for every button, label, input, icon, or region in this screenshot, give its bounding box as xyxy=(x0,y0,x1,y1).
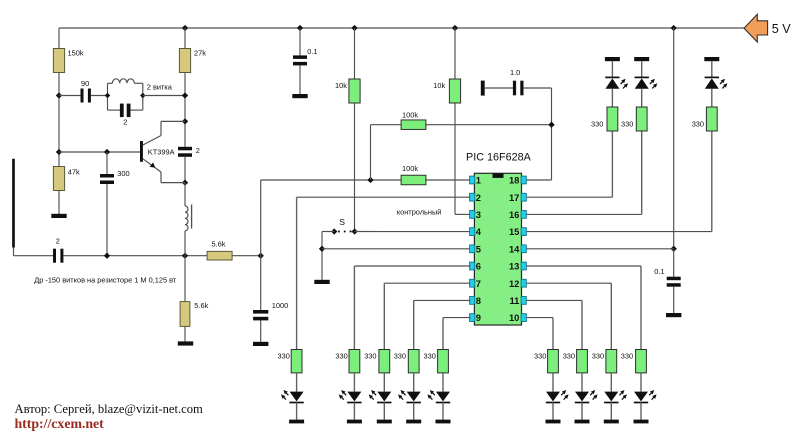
wire to LED xyxy=(442,373,444,392)
pin 7 number xyxy=(476,278,481,289)
svg-text:27k: 27k xyxy=(194,48,206,57)
wire Vdd branch xyxy=(673,28,675,249)
pin 10 pad xyxy=(521,314,526,322)
resistor 5.6k vertical xyxy=(180,301,208,326)
node (185,255.7) xyxy=(182,253,188,259)
resistor 330 top 2 xyxy=(621,107,647,131)
wire 10k-2 branch xyxy=(455,28,470,214)
node collector (185,121.4) xyxy=(182,118,188,124)
pin 18 pad xyxy=(521,176,526,184)
wire ground to LED xyxy=(611,61,613,77)
svg-text:11: 11 xyxy=(509,295,519,306)
node (185,95.5) xyxy=(182,92,188,98)
svg-text:330: 330 xyxy=(424,352,436,361)
wire to LED xyxy=(383,373,385,392)
node rail junction x300 xyxy=(297,25,303,31)
svg-text:0.1: 0.1 xyxy=(307,47,317,56)
pin 18 number xyxy=(509,175,519,186)
capacitor 0.1 decoupling right xyxy=(654,249,680,313)
IC U1 PIC 16F628A body xyxy=(466,151,532,325)
wire to LED xyxy=(552,373,554,392)
node (370.5,180) xyxy=(367,177,373,183)
pin 2 number xyxy=(476,192,481,203)
capacitor 1.0 coupling with plate xyxy=(481,68,552,96)
wire 1000 branch xyxy=(260,256,262,342)
svg-text:12: 12 xyxy=(509,278,519,289)
wire switch to ground xyxy=(322,232,334,280)
wire to LED xyxy=(296,373,298,392)
resistor 330 bottom-right 1 xyxy=(534,350,558,373)
svg-text:47k: 47k xyxy=(68,168,80,177)
wire pin5 xyxy=(322,248,470,250)
svg-text:2 витка: 2 витка xyxy=(147,82,173,91)
LED bottom-left 2 xyxy=(339,390,362,403)
LED bottom-left 1 xyxy=(281,390,304,403)
inductor Dr emitter choke xyxy=(185,183,192,256)
resistor 330 bottom-left 3 xyxy=(364,350,389,373)
wire pin18 branch xyxy=(527,88,552,180)
pin 16 pad xyxy=(521,211,526,219)
pin 12 number xyxy=(509,278,519,289)
svg-text:1: 1 xyxy=(476,175,481,186)
wire to ground xyxy=(581,403,583,420)
svg-text:330: 330 xyxy=(278,352,290,361)
ground under 1000 xyxy=(253,342,268,346)
svg-text:330: 330 xyxy=(592,352,604,361)
wire to LED xyxy=(610,373,612,392)
svg-text:13: 13 xyxy=(509,261,519,272)
svg-text:7: 7 xyxy=(476,278,481,289)
resistor 5.6k horizontal xyxy=(207,239,261,260)
svg-text:15: 15 xyxy=(509,226,519,237)
pin 11 pad xyxy=(521,297,526,305)
wire ground to LED xyxy=(641,61,643,77)
wire to LED xyxy=(353,373,355,392)
LED bottom-right 4 xyxy=(634,390,657,403)
node (322,248.8) xyxy=(319,246,325,252)
pin 7 pad xyxy=(470,279,475,287)
ground LED top 1 xyxy=(605,57,620,61)
pin 15 number xyxy=(509,226,519,237)
ground LED bottom-left 2 xyxy=(347,420,362,424)
wire to LED xyxy=(581,373,583,392)
wire pin13 to LED chain xyxy=(527,266,641,350)
wire pin1 feedback to oscillator xyxy=(261,180,471,256)
pin 6 pad xyxy=(470,262,475,270)
label Dr note xyxy=(34,276,177,285)
node tank right (142.8,95.5) xyxy=(140,93,145,98)
ground LED bottom-left 1 xyxy=(289,420,304,424)
pin 4 pad xyxy=(470,228,475,236)
svg-text:100k: 100k xyxy=(402,111,418,120)
svg-text:KT399A: KT399A xyxy=(148,148,175,157)
resistor 47k xyxy=(53,167,80,191)
wire LED to resistor xyxy=(611,89,613,107)
wire to ground xyxy=(610,403,612,420)
wire pin11 to LED chain xyxy=(527,300,582,349)
pin 1 pad xyxy=(470,176,475,184)
resistor 100k lower xyxy=(401,164,426,185)
wire 27k branch xyxy=(184,28,186,147)
wire to ground xyxy=(296,403,298,420)
capacitor 2 antenna coupling xyxy=(53,237,63,263)
svg-text:Др -150 витков на резисторе 1: Др -150 витков на резисторе 1 М 0,125 вт xyxy=(34,276,177,285)
pin 8 number xyxy=(476,295,481,306)
node bias junction (59,95.5) xyxy=(56,92,62,98)
resistor 330 top 1 xyxy=(591,107,618,131)
wire pin6 to LED chain xyxy=(354,266,470,350)
pin 12 pad xyxy=(521,279,526,287)
wire cap2 to emitter node xyxy=(184,157,186,183)
svg-text:5.6k: 5.6k xyxy=(194,301,208,310)
pin 9 number xyxy=(476,312,481,323)
wire cap90 link xyxy=(59,95,108,97)
wire tank to collector node xyxy=(143,95,185,97)
pin 8 pad xyxy=(470,297,475,305)
pin 3 pad xyxy=(470,211,475,219)
pin 1 number xyxy=(476,175,481,186)
node rail junction x455 xyxy=(452,25,458,31)
wire LED to resistor xyxy=(711,89,713,107)
svg-text:330: 330 xyxy=(692,120,704,129)
pin 10 number xyxy=(509,312,519,323)
svg-text:контрольный: контрольный xyxy=(397,208,442,217)
ground LED bottom-left 3 xyxy=(377,420,392,424)
pin 5 number xyxy=(476,243,481,254)
LED bottom-left 3 xyxy=(369,390,392,403)
resistor 330 bottom-left 4 xyxy=(394,350,419,373)
pin 13 pad xyxy=(521,262,526,270)
ground LED top 3 xyxy=(704,57,719,61)
wire to ground xyxy=(552,403,554,420)
svg-text:5.6k: 5.6k xyxy=(212,239,226,248)
ground under 47k xyxy=(51,214,66,218)
wire to LED xyxy=(640,373,642,392)
node base-cap300 junction (107,152) xyxy=(104,149,110,155)
svg-text:6: 6 xyxy=(476,261,481,272)
svg-text:90: 90 xyxy=(81,79,89,88)
svg-text:4: 4 xyxy=(476,226,482,237)
pin 2 pad xyxy=(470,193,475,201)
resistor 330 bottom-right 4 xyxy=(621,350,647,373)
capacitor 2 collector-emitter xyxy=(178,146,200,157)
svg-text:0.1: 0.1 xyxy=(654,267,664,276)
node (551.5,124.7) xyxy=(548,122,554,128)
wire to ground xyxy=(413,403,415,420)
svg-text:3: 3 xyxy=(476,209,481,220)
LED top 1 xyxy=(605,77,628,88)
LED bottom-right 1 xyxy=(546,390,569,403)
svg-text:9: 9 xyxy=(476,312,481,323)
switch S xyxy=(331,217,358,235)
svg-text:10: 10 xyxy=(509,312,519,323)
LED bottom-left 5 xyxy=(427,390,450,403)
svg-text:150k: 150k xyxy=(68,48,84,57)
pin 17 number xyxy=(509,192,519,203)
node rail junction x185 xyxy=(182,25,188,31)
wire 150k branch xyxy=(58,28,60,214)
wire pin7 to LED chain xyxy=(384,283,470,349)
node rail junction x673.7 xyxy=(671,25,677,31)
capacitor 0.1 decoupling left xyxy=(293,28,318,94)
svg-text:330: 330 xyxy=(621,352,633,361)
svg-text:330: 330 xyxy=(534,352,546,361)
LED bottom-right 2 xyxy=(575,390,598,403)
svg-text:PIC 16F628A: PIC 16F628A xyxy=(466,151,532,163)
resistor 27k xyxy=(179,48,206,72)
pin 17 pad xyxy=(521,193,526,201)
wire to ground xyxy=(383,403,385,420)
wire pin12 to LED chain xyxy=(527,283,612,349)
wire pin4 xyxy=(355,231,471,233)
svg-text:2: 2 xyxy=(476,192,481,203)
svg-text:330: 330 xyxy=(563,352,575,361)
LED top 2 xyxy=(635,77,658,88)
svg-text:17: 17 xyxy=(509,192,519,203)
ground LED bottom-right 4 xyxy=(634,420,649,424)
capacitor 90 xyxy=(81,79,91,103)
wire base xyxy=(59,151,140,153)
ground under switch xyxy=(314,280,329,284)
wire 10k-1 branch xyxy=(354,28,356,232)
resistor 330 bottom-left 1 xyxy=(278,350,303,373)
LC tank outline xyxy=(108,83,143,110)
svg-text:S: S xyxy=(339,217,345,227)
svg-text:330: 330 xyxy=(621,120,633,129)
pin 3 number xyxy=(476,209,481,220)
svg-text:330: 330 xyxy=(394,352,406,361)
svg-text:1.0: 1.0 xyxy=(510,68,520,77)
wire pin17 to LED chain xyxy=(527,131,613,197)
svg-text:300: 300 xyxy=(117,169,129,178)
svg-text:5: 5 xyxy=(476,243,481,254)
svg-text:14: 14 xyxy=(509,243,520,254)
resistor 10k first xyxy=(335,79,360,103)
svg-text:5 V: 5 V xyxy=(772,22,792,36)
svg-text:1000: 1000 xyxy=(272,301,288,310)
wire ground to LED xyxy=(711,61,713,77)
svg-text:330: 330 xyxy=(591,120,603,129)
wire 100k upper branch xyxy=(371,125,552,180)
LED bottom-right 3 xyxy=(604,390,627,403)
wire pin14 xyxy=(527,248,674,250)
wire pin16 to LED chain xyxy=(527,131,642,214)
capacitor 300 xyxy=(100,169,130,184)
ground under 5.6k xyxy=(178,341,193,345)
node base branch junction (59,152) xyxy=(56,149,62,155)
svg-text:2: 2 xyxy=(196,146,200,155)
capacitor 2 in tank xyxy=(120,104,131,127)
node emitter (185,182.6) xyxy=(182,179,188,185)
antenna xyxy=(14,159,54,256)
svg-text:18: 18 xyxy=(509,175,519,186)
pin 13 number xyxy=(509,261,519,272)
wire LED to resistor xyxy=(641,89,643,107)
ground under 0.1 right xyxy=(666,313,681,317)
ground LED bottom-left 5 xyxy=(436,420,451,424)
resistor 330 bottom-left 5 xyxy=(424,350,449,373)
ground LED bottom-right 1 xyxy=(546,420,561,424)
wire to ground xyxy=(353,403,355,420)
label site link xyxy=(15,416,105,431)
capacitor 1000 xyxy=(253,301,288,320)
svg-text:8: 8 xyxy=(476,295,481,306)
resistor 330 bottom-left 2 xyxy=(335,350,359,373)
pin 4 number xyxy=(476,226,482,237)
ground under 0.1 xyxy=(292,94,307,98)
resistor 100k upper xyxy=(401,111,426,130)
svg-text:10k: 10k xyxy=(433,81,445,90)
pin 16 number xyxy=(509,209,519,220)
ground LED bottom-right 2 xyxy=(575,420,590,424)
node tank left (107.5,95.5) xyxy=(105,93,110,98)
pin 6 number xyxy=(476,261,481,272)
inductor 2 vitka coil xyxy=(112,79,172,92)
LED bottom-left 4 xyxy=(398,390,421,403)
pin 5 pad xyxy=(470,245,475,253)
wire pin8 to LED chain xyxy=(414,300,471,349)
svg-text:10k: 10k xyxy=(335,81,347,90)
wire pin2 to LED chain xyxy=(297,197,471,349)
resistor 330 bottom-right 3 xyxy=(592,350,617,373)
svg-text:http://cxem.net: http://cxem.net xyxy=(15,416,105,431)
power terminal 5V arrow xyxy=(744,14,791,42)
wire cap300 branch xyxy=(106,152,108,256)
node (107,255.7) xyxy=(104,253,110,259)
ground LED bottom-left 4 xyxy=(406,420,421,424)
label kontrolnyi xyxy=(397,208,442,217)
ground LED top 2 xyxy=(634,57,649,61)
pin 15 pad xyxy=(521,228,526,236)
wire pin9 to LED chain xyxy=(443,318,470,350)
wire +5V rail xyxy=(59,27,744,29)
resistor 150k xyxy=(53,48,83,72)
node (260.7,255.7) xyxy=(258,253,264,259)
node rail junction x354.5 xyxy=(351,25,357,31)
svg-text:2: 2 xyxy=(123,118,127,127)
svg-text:Автор: Сергей, blaze@vizit-net: Автор: Сергей, blaze@vizit-net.com xyxy=(15,402,204,416)
transistor KT399A xyxy=(140,121,185,182)
pin 9 pad xyxy=(470,314,475,322)
wire to ground xyxy=(442,403,444,420)
svg-text:2: 2 xyxy=(56,237,60,246)
pin 14 number xyxy=(509,243,520,254)
wire pin15 to LED chain xyxy=(527,131,712,232)
resistor 330 bottom-right 2 xyxy=(563,350,588,373)
svg-text:330: 330 xyxy=(364,352,376,361)
node (673.7,248.8) xyxy=(671,246,677,252)
pin 14 pad xyxy=(521,245,526,253)
svg-text:16: 16 xyxy=(509,209,519,220)
label author xyxy=(15,402,204,416)
svg-text:330: 330 xyxy=(335,352,347,361)
wire to LED xyxy=(413,373,415,392)
svg-text:100k: 100k xyxy=(402,164,418,173)
resistor 10k second xyxy=(433,79,460,103)
resistor 330 top 3 xyxy=(692,107,718,131)
ground LED bottom-right 3 xyxy=(604,420,619,424)
pin 11 number xyxy=(509,295,519,306)
wire bottom node xyxy=(63,255,207,257)
wire to ground xyxy=(640,403,642,420)
wire pin10 to LED chain xyxy=(527,318,553,350)
wire 5.6k vertical branch xyxy=(184,256,186,342)
LED top 3 xyxy=(705,77,728,88)
